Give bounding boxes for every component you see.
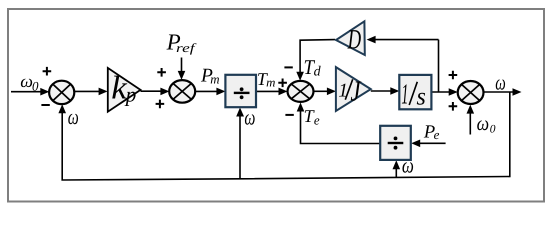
svg-text:e: e — [314, 112, 320, 127]
svg-text:1: 1 — [401, 79, 408, 111]
svg-text:d: d — [314, 64, 322, 79]
svg-text:e: e — [434, 127, 440, 142]
svg-text:m: m — [210, 72, 219, 87]
svg-text:0: 0 — [32, 79, 39, 94]
svg-text:s: s — [417, 83, 426, 110]
svg-text:D: D — [347, 25, 361, 56]
svg-text:0: 0 — [490, 123, 496, 135]
svg-text:m: m — [266, 76, 275, 90]
svg-text:ω: ω — [244, 105, 255, 130]
svg-text:ω: ω — [402, 153, 414, 178]
svg-text:p: p — [124, 82, 137, 106]
svg-text:ω: ω — [495, 70, 506, 94]
svg-text:ref: ref — [176, 41, 197, 55]
svg-text:ω: ω — [68, 104, 79, 129]
svg-text:ω: ω — [477, 113, 490, 135]
